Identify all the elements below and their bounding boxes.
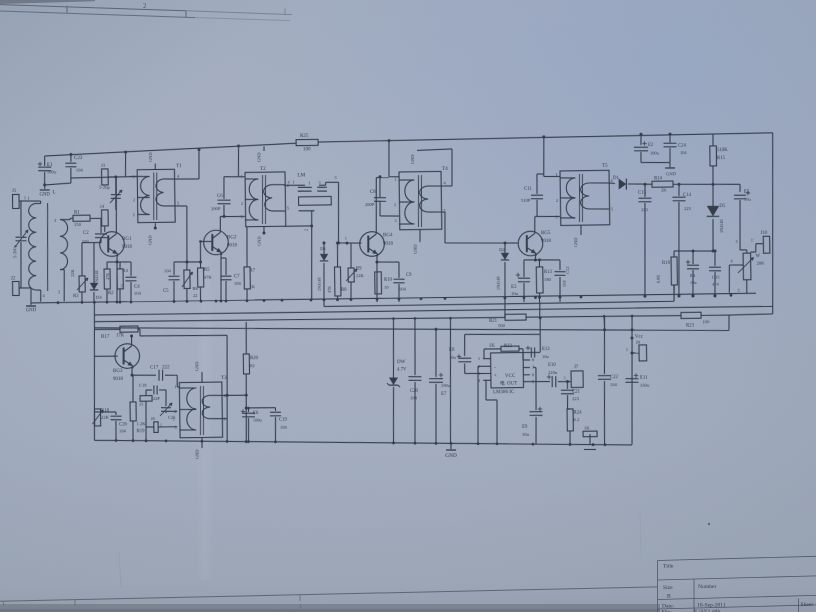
potentiometer R6 22 xyxy=(186,262,188,270)
svg-text:GND: GND xyxy=(147,235,152,245)
resistor R15 510K xyxy=(712,134,714,146)
resistor R4 xyxy=(119,262,121,269)
svg-text:2: 2 xyxy=(58,289,60,294)
svg-text:E5: E5 xyxy=(744,190,750,195)
svg-text:T5: T5 xyxy=(602,163,608,169)
svg-text:Number: Number xyxy=(698,584,716,590)
svg-text:17K: 17K xyxy=(116,333,125,338)
capacitor C4 104 xyxy=(130,262,132,276)
ground T4 secondary top xyxy=(441,185,452,187)
transformer T2 xyxy=(245,172,286,227)
transformer T5 xyxy=(560,170,610,225)
capacitor C15 474 xyxy=(714,249,717,252)
svg-text:R6: R6 xyxy=(192,286,198,291)
svg-text:D5: D5 xyxy=(719,204,726,209)
electrolytic E6 100u xyxy=(245,406,248,409)
capacitor C20 104 xyxy=(414,318,415,375)
svg-text:R9: R9 xyxy=(356,266,362,271)
svg-text:100u: 100u xyxy=(253,417,263,422)
resistor R2 47K xyxy=(106,262,108,269)
svg-text:C9: C9 xyxy=(406,273,412,278)
svg-text:100: 100 xyxy=(702,319,710,324)
svg-text:T3: T3 xyxy=(221,375,227,381)
svg-text:474: 474 xyxy=(712,282,719,287)
svg-text:2: 2 xyxy=(174,409,176,414)
resistor R14 2K xyxy=(652,181,673,187)
svg-text:6: 6 xyxy=(532,372,534,377)
svg-text:104: 104 xyxy=(680,150,687,155)
transformer T4 xyxy=(399,171,442,229)
svg-text:T2: T2 xyxy=(260,166,266,172)
svg-text:104: 104 xyxy=(399,286,407,291)
svg-text:2: 2 xyxy=(241,201,243,206)
svg-text:8: 8 xyxy=(532,357,534,362)
svg-text:BG3: BG3 xyxy=(113,369,123,374)
resistor R16 6.8K xyxy=(673,251,675,257)
svg-text:223: 223 xyxy=(684,206,692,211)
svg-text:22K: 22K xyxy=(356,273,365,278)
wire BG3 emitter xyxy=(131,366,133,375)
svg-text:2: 2 xyxy=(133,198,135,203)
svg-text:C12: C12 xyxy=(565,266,570,274)
svg-text:C11: C11 xyxy=(524,187,532,192)
svg-text:L: L xyxy=(52,189,55,195)
svg-text:E1: E1 xyxy=(47,163,53,168)
svg-text:100u: 100u xyxy=(650,150,660,155)
svg-text:+: + xyxy=(494,374,497,379)
electrolytic E5 10u xyxy=(713,183,740,186)
ground main xyxy=(449,318,452,443)
svg-text:104: 104 xyxy=(234,281,242,286)
electrolytic E10 220u xyxy=(530,380,550,383)
sheet bottom border xyxy=(0,587,657,601)
ground E2 C24 xyxy=(641,161,670,164)
svg-text:1: 1 xyxy=(173,417,175,422)
svg-text:R24: R24 xyxy=(573,410,582,415)
capacitor C7 104 xyxy=(225,258,227,275)
ground T4 core xyxy=(419,230,421,242)
wire T4 pin5 to BG5 base xyxy=(441,211,445,213)
wire E1-C23 bottom xyxy=(45,183,71,185)
svg-text:10u: 10u xyxy=(449,355,457,360)
wire BG4 emitter xyxy=(376,255,377,303)
capacitor C24 104 xyxy=(668,133,671,136)
electrolytic E8 10u xyxy=(458,357,471,359)
ground T5 core xyxy=(580,225,582,235)
wire LM1 out to BG4 xyxy=(338,182,340,243)
svg-text:BG1: BG1 xyxy=(122,237,132,242)
wire bus H3 xyxy=(94,306,772,316)
svg-text:GND: GND xyxy=(573,237,578,247)
wire left riser xyxy=(93,302,97,440)
svg-text:GND: GND xyxy=(256,236,261,246)
svg-text:10-Sep-2011: 10-Sep-2011 xyxy=(697,603,726,609)
svg-text:5: 5 xyxy=(287,205,289,210)
svg-text:Title: Title xyxy=(663,564,674,570)
ground xyxy=(30,301,32,305)
svg-text:22K: 22K xyxy=(70,269,75,277)
svg-text:9018: 9018 xyxy=(541,239,552,244)
svg-text:223: 223 xyxy=(572,396,580,401)
svg-text:100u: 100u xyxy=(441,383,451,388)
electrolytic E3 10u xyxy=(523,260,525,277)
svg-text:1: 1 xyxy=(24,195,26,200)
svg-text:GND: GND xyxy=(413,244,418,254)
resistor R24 8.2 xyxy=(567,409,573,431)
svg-text:OUT: OUT xyxy=(507,381,517,386)
resistor R8 47K xyxy=(336,243,339,267)
svg-text:104: 104 xyxy=(562,280,567,287)
svg-text:1: 1 xyxy=(478,356,480,361)
svg-text:C14: C14 xyxy=(683,193,692,198)
wire BG3 collector xyxy=(138,328,140,330)
capacitor C6 200P xyxy=(224,176,239,178)
trimmer capacitor C26b xyxy=(165,390,168,406)
svg-text:104: 104 xyxy=(76,167,84,172)
svg-text:R25: R25 xyxy=(300,134,309,139)
wire BG1 collector xyxy=(116,177,117,232)
svg-text:103: 103 xyxy=(82,239,90,244)
svg-text:C24: C24 xyxy=(678,143,687,148)
svg-text:1: 1 xyxy=(308,180,310,185)
svg-text:100u: 100u xyxy=(47,169,57,174)
capacitor C12 104 xyxy=(559,260,561,270)
svg-text:2: 2 xyxy=(143,2,147,10)
svg-text:2: 2 xyxy=(303,229,308,231)
svg-text:10u: 10u xyxy=(511,291,519,296)
svg-text:R17: R17 xyxy=(101,335,110,340)
svg-text:J2: J2 xyxy=(11,276,16,281)
electrolytic E7 100u xyxy=(435,329,436,377)
svg-text:5: 5 xyxy=(177,200,179,205)
svg-text:510P: 510P xyxy=(521,198,531,203)
svg-text:BG2: BG2 xyxy=(227,235,237,240)
wire LM386 pin2 pin3 input xyxy=(478,365,483,367)
ground T3 core xyxy=(201,372,203,383)
potentiometer R3 22K xyxy=(81,243,84,276)
svg-text:5-260p: 5-260p xyxy=(12,244,17,258)
svg-text:C8: C8 xyxy=(370,190,376,195)
svg-text:R16: R16 xyxy=(662,261,671,266)
resistor R20 82 xyxy=(245,322,248,354)
svg-text:1K: 1K xyxy=(584,425,590,430)
svg-text:5: 5 xyxy=(611,206,613,211)
wire B+ top rail xyxy=(45,143,297,156)
svg-text:J7: J7 xyxy=(574,365,579,370)
svg-text:9018: 9018 xyxy=(113,377,124,382)
electrolytic E9 10u xyxy=(533,366,536,368)
svg-text:5: 5 xyxy=(737,288,739,293)
svg-text:1N4148: 1N4148 xyxy=(496,277,501,291)
wire main ground bus H1 xyxy=(31,293,756,304)
wire BG1 emitter xyxy=(116,255,117,302)
transistor BG3 9018 xyxy=(115,344,140,369)
resistor R19 1.2K xyxy=(132,375,135,402)
resistor R23 100 xyxy=(681,312,701,318)
resistor R10 10 xyxy=(375,272,382,294)
capacitor C22 104 xyxy=(604,316,606,374)
svg-text:LM386 IC: LM386 IC xyxy=(493,390,515,395)
svg-text:1: 1 xyxy=(555,172,557,177)
variable capacitor C1 5-260p xyxy=(19,201,22,236)
svg-text:180: 180 xyxy=(544,277,552,282)
svg-text:330u: 330u xyxy=(640,383,650,388)
svg-text:D2: D2 xyxy=(499,247,505,252)
svg-text:104: 104 xyxy=(280,425,288,430)
wire AGC node xyxy=(674,250,713,251)
resistor R5 47K xyxy=(199,241,202,268)
svg-text:GND: GND xyxy=(194,362,199,372)
electrolytic E1 100u xyxy=(44,156,46,166)
connector J9 Vcc xyxy=(630,316,634,445)
svg-text:R14: R14 xyxy=(654,176,663,181)
transistor BG4 9018 xyxy=(360,232,385,257)
svg-text:222: 222 xyxy=(162,365,170,370)
svg-text:C5: C5 xyxy=(163,289,169,294)
svg-text:R2: R2 xyxy=(108,291,114,296)
wire rail to T2 xyxy=(237,144,240,147)
potentiometer R9 22K xyxy=(350,243,353,268)
wire BG5 collector xyxy=(534,217,537,232)
capacitor C14 223 xyxy=(677,183,680,186)
svg-text:3: 3 xyxy=(240,215,242,220)
svg-text:BG5: BG5 xyxy=(541,231,551,236)
svg-text:3: 3 xyxy=(394,218,396,223)
capacitor C21 223 xyxy=(566,380,569,383)
svg-text:GND: GND xyxy=(666,171,677,176)
svg-text:1: 1 xyxy=(132,175,134,180)
capacitor C26 104 xyxy=(94,411,116,414)
svg-text:R1: R1 xyxy=(74,210,80,215)
electrolytic E12 10u xyxy=(523,351,540,353)
svg-text:C4: C4 xyxy=(134,285,140,290)
svg-text:E3: E3 xyxy=(511,285,517,290)
svg-text:D4: D4 xyxy=(96,295,102,300)
ground under E1 xyxy=(44,185,46,189)
connector J4 xyxy=(102,210,109,226)
svg-text:C19: C19 xyxy=(279,418,288,423)
svg-text:C15: C15 xyxy=(712,275,720,280)
svg-text:22K: 22K xyxy=(101,415,110,420)
wire bus H5 xyxy=(94,319,729,339)
electrolytic E11 330u xyxy=(626,377,639,379)
electrolytic E2 100u xyxy=(639,133,642,136)
svg-text:E9: E9 xyxy=(522,425,528,430)
svg-text:104: 104 xyxy=(119,428,127,433)
wire LM386 supply loop xyxy=(539,318,541,335)
svg-text:C21: C21 xyxy=(572,389,581,394)
svg-text:1K: 1K xyxy=(489,344,495,349)
svg-text:3: 3 xyxy=(334,175,336,180)
svg-text:510K: 510K xyxy=(717,148,728,153)
svg-text:5-26p: 5-26p xyxy=(99,185,110,190)
svg-text:1N4148: 1N4148 xyxy=(719,219,724,233)
svg-text:R20: R20 xyxy=(250,356,259,361)
wire bottom ground bus xyxy=(94,433,632,453)
svg-text:10: 10 xyxy=(384,285,389,290)
svg-text:R7: R7 xyxy=(249,268,255,273)
svg-text:3: 3 xyxy=(54,218,56,223)
resistor R17 17K xyxy=(94,328,120,331)
svg-text:Sheet: Sheet xyxy=(801,602,814,608)
paper blemishes xyxy=(708,523,710,525)
svg-text:W: W xyxy=(755,254,760,259)
resistor R13 180 xyxy=(538,260,540,267)
svg-text:LM: LM xyxy=(297,172,305,178)
svg-text:1': 1' xyxy=(751,237,754,242)
wire BG2 base xyxy=(199,240,202,243)
svg-text:10u: 10u xyxy=(690,280,697,285)
diode D4 1N4148 xyxy=(93,243,94,283)
svg-text:C2: C2 xyxy=(83,231,89,236)
potentiometer W 20K xyxy=(740,249,747,251)
svg-text:T4: T4 xyxy=(442,166,448,172)
svg-text:C26: C26 xyxy=(119,422,128,427)
capacitor C13 223 xyxy=(643,183,646,186)
transformer T3 xyxy=(179,382,222,438)
svg-text:9018: 9018 xyxy=(122,245,133,250)
svg-text:1: 1 xyxy=(345,236,347,241)
capacitor C2 103 xyxy=(100,218,102,233)
transistor BG2 9018 xyxy=(204,230,229,255)
wire right bus xyxy=(770,133,775,314)
wire LM386 pin4 ground xyxy=(485,380,488,400)
svg-text:C17: C17 xyxy=(150,365,159,370)
wire T1 pin1 xyxy=(130,175,137,177)
svg-text:J10: J10 xyxy=(760,231,767,236)
svg-text:500: 500 xyxy=(498,323,506,328)
wire rail to T5 xyxy=(542,135,545,138)
electrolytic E4 10u xyxy=(692,251,694,264)
svg-text:GND: GND xyxy=(39,192,50,197)
wire rail to T4 xyxy=(387,139,390,142)
svg-text:9018: 9018 xyxy=(227,243,238,248)
svg-text:DW: DW xyxy=(397,360,406,365)
svg-text:E8: E8 xyxy=(449,348,455,353)
sheet top border xyxy=(0,0,95,4)
capacitor C17 222 xyxy=(132,374,156,377)
svg-text:223: 223 xyxy=(641,207,649,212)
svg-text:220u: 220u xyxy=(548,370,558,375)
svg-text:VCC: VCC xyxy=(505,374,516,379)
svg-text:R23: R23 xyxy=(686,323,695,328)
svg-text:3: 3 xyxy=(555,215,557,220)
svg-text:C23: C23 xyxy=(74,156,83,161)
wire C17 to T3 pin1 xyxy=(176,375,178,387)
svg-text:D1: D1 xyxy=(613,176,620,181)
capacitor C23 104 xyxy=(69,153,72,156)
svg-text:E6: E6 xyxy=(253,411,259,416)
transistor BG1 9018 xyxy=(100,232,125,257)
svg-text:C18: C18 xyxy=(139,383,147,388)
svg-text:15: 15 xyxy=(120,284,125,288)
svg-text:E7: E7 xyxy=(441,392,447,397)
wire BG4 collector xyxy=(375,178,377,233)
title block xyxy=(658,556,816,560)
svg-text:47K: 47K xyxy=(105,273,110,280)
svg-text:R15: R15 xyxy=(717,156,726,161)
resistor R7 1K xyxy=(246,227,247,267)
wire BG2 emitter xyxy=(220,253,221,303)
ground T1 core xyxy=(154,164,156,170)
svg-text:C6: C6 xyxy=(217,194,223,199)
wire T3 pin5 xyxy=(222,418,227,420)
svg-text:100: 100 xyxy=(303,147,311,152)
svg-text:82: 82 xyxy=(250,363,255,368)
svg-text:E11: E11 xyxy=(640,376,648,381)
svg-text:C13: C13 xyxy=(638,191,647,196)
svg-text:1: 1 xyxy=(292,180,294,185)
svg-text:47K: 47K xyxy=(327,286,332,293)
wire H4 risers xyxy=(603,316,605,330)
svg-text:E10: E10 xyxy=(548,363,556,368)
wire T3 pin4 loop xyxy=(222,394,246,396)
resistor R1 150 xyxy=(69,218,71,219)
svg-text:2: 2 xyxy=(394,202,396,207)
svg-text:GND: GND xyxy=(256,153,261,163)
svg-text:1.2K: 1.2K xyxy=(136,421,146,426)
svg-text:10u: 10u xyxy=(542,354,550,359)
connector J1 xyxy=(12,194,19,208)
diode D5 1N4148 xyxy=(712,184,715,206)
svg-text:1: 1 xyxy=(564,376,566,381)
diode D3 1N4148 xyxy=(323,243,325,254)
resistor R25 100 xyxy=(296,139,318,145)
svg-text:BG4: BG4 xyxy=(383,233,393,238)
wire rail to T1 area xyxy=(124,151,127,154)
svg-text:1N4148: 1N4148 xyxy=(94,271,99,285)
svg-text:20K: 20K xyxy=(756,260,765,265)
resistor 15 xyxy=(140,396,152,402)
trimmer capacitor C3 5-26p xyxy=(115,177,117,194)
svg-text:C22: C22 xyxy=(610,375,619,380)
wire BG5 emitter xyxy=(534,254,536,260)
svg-text:B: B xyxy=(667,594,671,600)
capacitor C11 510P xyxy=(536,200,538,217)
svg-text:8.2: 8.2 xyxy=(573,417,580,422)
transformer T1 xyxy=(137,169,175,222)
potentiometer R18 22K xyxy=(94,409,100,426)
svg-text:E12: E12 xyxy=(542,347,550,352)
op-amp IC LM386 xyxy=(491,352,524,387)
wire BG2 collector xyxy=(219,217,221,231)
svg-text:104: 104 xyxy=(164,268,172,273)
svg-text:R13: R13 xyxy=(544,270,553,275)
svg-text:R21: R21 xyxy=(489,319,498,324)
transistor BG5 9018 xyxy=(518,231,543,256)
svg-text:10u: 10u xyxy=(744,197,752,202)
svg-text:9018: 9018 xyxy=(383,242,394,247)
svg-text:22: 22 xyxy=(193,293,197,298)
capacitor C19 104 xyxy=(274,408,276,411)
svg-text:GND: GND xyxy=(445,453,457,459)
svg-text:R5: R5 xyxy=(204,268,210,273)
svg-text:1K: 1K xyxy=(249,284,255,289)
svg-text:R8: R8 xyxy=(341,288,347,293)
connector J10 xyxy=(763,236,770,253)
resistor R22 1K xyxy=(483,349,485,359)
diode D2 1N4148 xyxy=(503,242,506,245)
svg-text:6.8K: 6.8K xyxy=(656,275,661,283)
svg-text:1: 1 xyxy=(240,174,242,179)
svg-text:C20: C20 xyxy=(410,389,419,394)
wire BG4 base xyxy=(338,242,361,245)
svg-text:1: 1 xyxy=(27,196,29,201)
svg-text:1: 1 xyxy=(394,177,396,182)
svg-text:3: 3 xyxy=(318,180,320,185)
ground T2 core xyxy=(263,146,265,151)
svg-text:4.7V: 4.7V xyxy=(397,367,407,372)
